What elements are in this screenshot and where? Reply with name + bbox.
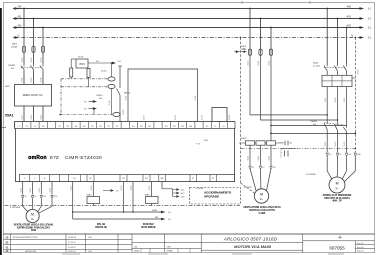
svg-text:05.28: 05.28 xyxy=(335,98,337,103)
wire 05Q2 to fan pins xyxy=(249,145,251,165)
svg-text:3~: 3~ xyxy=(335,186,339,190)
wire bus L2 (401) xyxy=(13,14,372,20)
svg-text:Fog. 18: Fog. 18 xyxy=(357,251,363,253)
svg-text:B1: B1 xyxy=(73,178,75,180)
svg-text:05.05: 05.05 xyxy=(101,71,107,73)
title right cells xyxy=(302,234,304,253)
svg-text:P2: P2 xyxy=(212,178,214,180)
svg-text:1W: 1W xyxy=(273,167,276,169)
svg-text:05A1: 05A1 xyxy=(5,113,14,117)
svg-text:05.12: 05.12 xyxy=(31,115,33,120)
PE dimension mark xyxy=(234,49,247,54)
device 05P1 xyxy=(76,59,88,68)
svg-text:4kW - 2P: 4kW - 2P xyxy=(332,200,342,203)
svg-text:RUN DRIVE: RUN DRIVE xyxy=(141,225,156,229)
svg-text:Pag. 05: Pag. 05 xyxy=(357,243,364,245)
svg-text:05-03-08: 05-03-08 xyxy=(68,237,77,239)
svg-text:L1: L1 xyxy=(18,126,20,128)
svg-text:DATA: DATA xyxy=(134,250,139,253)
svg-text:DRIVE IB: DRIVE IB xyxy=(95,225,106,229)
ref comb 10.1 10.2 7.04 xyxy=(161,182,163,189)
svg-text:W: W xyxy=(44,178,46,180)
wire RN out xyxy=(73,217,172,221)
svg-text:05Q1: 05Q1 xyxy=(313,63,319,65)
svg-text:27-11-07: 27-11-07 xyxy=(68,242,77,244)
svg-text:05.45: 05.45 xyxy=(258,156,260,161)
svg-text:E7Z: E7Z xyxy=(50,155,59,161)
svg-text:A1: A1 xyxy=(132,125,134,128)
svg-text:05.42: 05.42 xyxy=(258,61,260,66)
svg-text:05K1: 05K1 xyxy=(87,194,93,196)
ref arrow 7.2 xyxy=(103,189,119,192)
svg-text:T6XK3: T6XK3 xyxy=(124,93,131,95)
wire contactor to filter 05Z1 xyxy=(23,72,25,85)
wire loop over drive (05.07/05.08) xyxy=(128,69,198,122)
svg-text:G.B.: G.B. xyxy=(88,237,92,239)
svg-text:KMR: KMR xyxy=(152,210,157,212)
svg-text:M: M xyxy=(31,213,34,217)
svg-text:omRon: omRon xyxy=(28,155,46,161)
svg-text:RN: RN xyxy=(155,217,159,219)
svg-text:REBF1-FR307-NC: REBF1-FR307-NC xyxy=(23,94,43,97)
wire fuses to contactor T6XM2 xyxy=(23,53,25,65)
svg-text:RUN INV.: RUN INV. xyxy=(143,222,154,226)
N link line xyxy=(271,132,355,134)
svg-text:FIRMA: FIRMA xyxy=(167,250,174,253)
svg-text:4 101M1A: 4 101M1A xyxy=(306,173,317,176)
wires contactor to motor pins xyxy=(326,115,328,122)
svg-text:4 101S1: 4 101S1 xyxy=(244,187,253,189)
svg-text:05.31: 05.31 xyxy=(325,142,327,147)
dash-dot return line xyxy=(59,114,61,116)
wire drop L2 to fuse 04F1.2 xyxy=(33,19,35,47)
svg-text:30-07-07: 30-07-07 xyxy=(68,251,77,253)
svg-text:05.64: 05.64 xyxy=(229,115,231,120)
fuse 04F1.1 xyxy=(22,46,25,53)
svg-text:EMISSIONE: EMISSIONE xyxy=(25,251,37,253)
svg-text:VER.: VER. xyxy=(167,247,172,249)
svg-text:05.02: 05.02 xyxy=(31,58,33,63)
wire bypass horizontals xyxy=(250,114,327,116)
connector bush 1 xyxy=(108,77,115,81)
svg-text:05.24: 05.24 xyxy=(50,188,52,193)
resistor R left of 05P1 xyxy=(71,58,76,60)
svg-text:05.29: 05.29 xyxy=(344,98,346,103)
wire drop L3 to fuse 04F1.3 xyxy=(42,28,44,47)
svg-text:05.46: 05.46 xyxy=(269,156,271,161)
svg-text:A2: A2 xyxy=(140,125,142,128)
connector bush 2 xyxy=(108,84,115,88)
svg-text:05.62: 05.62 xyxy=(175,115,177,120)
svg-text:402: 402 xyxy=(347,23,352,27)
svg-text:VENTOLE CON ALETTE: VENTOLE CON ALETTE xyxy=(249,209,276,212)
title block xyxy=(4,233,375,235)
PE dash-dot horizontal xyxy=(241,148,356,150)
module box on terminal strip xyxy=(212,108,227,122)
wire bush chain xyxy=(111,89,113,115)
wire pins to fan motor xyxy=(250,169,256,191)
svg-text:S2: S2 xyxy=(67,126,69,128)
svg-text:L3: L3 xyxy=(34,126,36,128)
svg-text:05.33: 05.33 xyxy=(344,142,346,147)
svg-text:04F1: 04F1 xyxy=(12,44,18,46)
linkage dashed T6XM2 xyxy=(21,67,41,69)
svg-text:05.05: 05.05 xyxy=(31,78,33,83)
svg-text:CIRCUITO OLIO VASCA: CIRCUITO OLIO VASCA xyxy=(324,197,350,200)
N dashed vertical right xyxy=(354,38,356,153)
svg-text:05.51: 05.51 xyxy=(70,186,72,191)
svg-text:05.13: 05.13 xyxy=(41,115,43,120)
svg-text:2W: 2W xyxy=(348,154,351,156)
svg-text:05.32: 05.32 xyxy=(335,142,337,147)
junction dots on buses xyxy=(23,8,25,10)
svg-text:N: N xyxy=(18,35,20,38)
wire fan feed down xyxy=(249,56,251,115)
svg-text:M2: M2 xyxy=(173,126,176,128)
svg-text:DIS.: DIS. xyxy=(134,247,138,249)
svg-text:05.30: 05.30 xyxy=(358,70,360,75)
revision table xyxy=(4,238,133,240)
svg-text:G.B.: G.B. xyxy=(88,251,92,253)
svg-text:3x(6)A: 3x(6)A xyxy=(11,45,18,48)
wire R7 drop to bush 1 xyxy=(111,62,113,64)
svg-text:MOTORI VCA MANI: MOTORI VCA MANI xyxy=(234,244,272,249)
svg-text:050: 050 xyxy=(243,49,246,51)
relay coil 05K2 xyxy=(151,182,153,197)
svg-text:P 74: P 74 xyxy=(196,144,200,146)
wire to RUN line xyxy=(72,182,74,220)
wire drop L1 to fuse 04F1.1 xyxy=(23,9,25,47)
aggiornamento dashed box xyxy=(190,188,241,205)
svg-text:M3: M3 xyxy=(181,126,184,128)
svg-text:B2: B2 xyxy=(89,178,91,180)
svg-text:3~: 3~ xyxy=(31,217,35,221)
svg-text:05.09: 05.09 xyxy=(123,110,125,115)
svg-text:05P1: 05P1 xyxy=(79,63,85,66)
svg-text:05.11: 05.11 xyxy=(22,115,24,119)
svg-text:S1: S1 xyxy=(58,126,60,128)
resistor R right of 05P1 xyxy=(88,67,90,70)
svg-text:05.07: 05.07 xyxy=(126,96,128,101)
wire pins to motor xyxy=(22,198,24,206)
svg-text:M1: M1 xyxy=(122,178,125,180)
svg-text:3~: 3~ xyxy=(260,197,264,201)
svg-text:05.43: 05.43 xyxy=(269,61,271,66)
wires pins to pump motor xyxy=(326,156,328,172)
connector bush 3 xyxy=(113,112,120,116)
svg-text:3kW: 3kW xyxy=(31,229,37,232)
goto arrow T6 b xyxy=(84,107,97,114)
svg-text:S6: S6 xyxy=(99,126,101,128)
svg-text:400: 400 xyxy=(18,6,23,9)
svg-text:MODIFICA MORSETTI INV.: MODIFICA MORSETTI INV. xyxy=(13,236,38,239)
svg-text:05.23: 05.23 xyxy=(39,188,41,193)
wire bus L1 (400) xyxy=(13,4,372,10)
svg-text:401: 401 xyxy=(18,16,23,19)
svg-text:P 16101: P 16101 xyxy=(196,188,204,190)
wire R7 to ref 5.8 xyxy=(88,61,121,64)
separation dash-dot line xyxy=(5,204,241,206)
svg-text:UPGRADE: UPGRADE xyxy=(204,195,219,199)
svg-text:402: 402 xyxy=(18,25,23,28)
svg-text:05.06: 05.06 xyxy=(109,101,111,106)
svg-text:05.21: 05.21 xyxy=(20,188,22,193)
svg-text:05.44: 05.44 xyxy=(248,156,250,161)
svg-text:(PE): (PE) xyxy=(54,196,58,198)
title mid cells xyxy=(164,234,166,253)
drawing title xyxy=(201,242,303,244)
svg-text:M4: M4 xyxy=(189,126,192,128)
svg-text:05.03: 05.03 xyxy=(41,58,43,63)
svg-text:05.41: 05.41 xyxy=(248,61,250,66)
svg-text:05.02: 05.02 xyxy=(78,57,84,59)
wire drops pump branch xyxy=(326,9,328,65)
svg-text:05K2: 05K2 xyxy=(145,194,151,196)
svg-text:S7: S7 xyxy=(108,126,110,128)
svg-text:05.63: 05.63 xyxy=(202,115,204,120)
svg-text:POMPA ALTA PRESSIONE: POMPA ALTA PRESSIONE xyxy=(323,194,352,197)
fuse 04F1.3 xyxy=(41,46,44,53)
fuse 04F2.3 xyxy=(269,49,272,56)
terminal strip bottom xyxy=(20,175,235,182)
svg-text:S3: S3 xyxy=(75,126,77,128)
svg-text:401: 401 xyxy=(347,14,352,18)
svg-text:05.27: 05.27 xyxy=(325,98,327,103)
svg-text:12-09-07: 12-09-07 xyxy=(68,247,77,249)
svg-text:CIMR-E7Z4030: CIMR-E7Z4030 xyxy=(65,155,102,161)
svg-text:N: N xyxy=(351,33,353,37)
svg-text:Seg. 06: Seg. 06 xyxy=(357,247,364,249)
svg-text:05.61: 05.61 xyxy=(144,115,146,120)
wire m2 xyxy=(132,182,134,213)
svg-text:05.08: 05.08 xyxy=(195,96,197,101)
svg-text:1W: 1W xyxy=(43,196,46,198)
dash-dot net into terminals xyxy=(61,78,108,80)
svg-text:S5: S5 xyxy=(91,126,93,128)
wires overload to contactor xyxy=(326,73,328,75)
wire bus N (dash-dot) xyxy=(13,33,372,39)
overload block xyxy=(322,75,352,86)
svg-text:05.01: 05.01 xyxy=(22,58,24,63)
wires drive output to motor 101M1A xyxy=(22,182,24,195)
wire m1 xyxy=(123,182,125,213)
scan bleed marks below frame xyxy=(62,253,344,255)
svg-text:P1: P1 xyxy=(192,178,194,180)
svg-text:S4: S4 xyxy=(83,126,85,128)
svg-text:0.2kW: 0.2kW xyxy=(259,213,266,215)
wire filter to drive terminals xyxy=(23,106,25,122)
svg-text:ARLOGICO 0507-1016D: ARLOGICO 0507-1016D xyxy=(223,237,278,242)
svg-text:(PE): (PE) xyxy=(357,154,361,156)
relay coil 05K1 xyxy=(92,182,94,197)
svg-text:VENTILATORE VASCA RACCOLTA: VENTILATORE VASCA RACCOLTA xyxy=(243,206,281,209)
pump motor pins xyxy=(326,152,329,154)
svg-text:11-16 A: 11-16 A xyxy=(313,64,320,67)
wire KMR out xyxy=(73,210,172,214)
wire bus L3 (402) xyxy=(13,23,372,29)
svg-text:607055: 607055 xyxy=(329,246,345,251)
svg-text:400: 400 xyxy=(347,4,352,8)
wire drops fan branch xyxy=(249,9,251,49)
N dashed drop to fan xyxy=(240,38,242,184)
svg-text:05.04: 05.04 xyxy=(22,78,24,83)
terminal strip top xyxy=(15,122,236,129)
svg-text:T6XM2: T6XM2 xyxy=(8,65,16,67)
svg-text:05.55: 05.55 xyxy=(149,186,151,191)
svg-text:M: M xyxy=(260,193,263,197)
svg-text:M2: M2 xyxy=(145,178,148,180)
page frame xyxy=(2,127,6,129)
svg-text:L2: L2 xyxy=(26,126,28,128)
goto arrow T6 a xyxy=(84,100,97,103)
fan thermo-contact terminals xyxy=(278,142,284,144)
motor pins U V W PE xyxy=(21,195,24,197)
fuse 04F1.2 xyxy=(32,46,35,53)
svg-text:05.53: 05.53 xyxy=(121,186,123,191)
svg-text:05.52: 05.52 xyxy=(91,186,93,191)
svg-text:05.54: 05.54 xyxy=(131,186,133,191)
svg-text:INV. IB: INV. IB xyxy=(97,222,105,226)
switch T6XK3 xyxy=(119,66,121,88)
page scan edge left xyxy=(0,8,2,255)
svg-text:M1: M1 xyxy=(165,126,168,128)
fuse 04F2.2 xyxy=(259,49,262,56)
svg-text:T6XK1: T6XK1 xyxy=(96,95,103,97)
svg-text:05.06: 05.06 xyxy=(41,78,43,83)
svg-text:05.22: 05.22 xyxy=(30,188,32,193)
svg-text:05Q2: 05Q2 xyxy=(241,138,247,140)
svg-text:T6KM1: T6KM1 xyxy=(310,121,318,123)
fuse 04F2.1 xyxy=(248,49,251,56)
svg-text:M: M xyxy=(336,182,339,186)
svg-text:8 101M1A: 8 101M1A xyxy=(10,206,21,209)
svg-text:05Z1: 05Z1 xyxy=(5,86,11,88)
